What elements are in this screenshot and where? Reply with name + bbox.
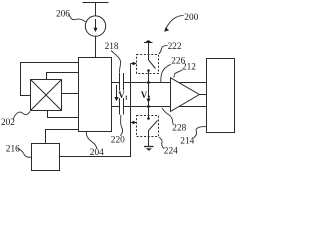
capacitor 220 — [120, 98, 124, 115]
wire capacitor 220 to comparator/block214 — [124, 106, 207, 108]
leader 224 — [159, 137, 164, 148]
svg-text:212: 212 — [182, 63, 196, 73]
wire current source to block 204 — [95, 36, 97, 57]
leader 226 — [161, 64, 171, 82]
leader 222 — [159, 46, 168, 54]
comparator output wire — [199, 94, 206, 96]
leader 216 — [18, 149, 32, 157]
wire box216 to block204 — [46, 130, 79, 144]
leader 218 — [111, 51, 121, 73]
svg-text:224: 224 — [164, 147, 178, 157]
switch control arrow upper — [131, 62, 137, 66]
block 204 — [79, 58, 112, 132]
wire into switch 224 — [148, 107, 150, 119]
box 216 — [32, 144, 60, 171]
wire capacitor 218 to comparator/block214 — [124, 82, 207, 84]
control wire box216 to switches — [60, 64, 131, 157]
block 214 — [207, 59, 235, 133]
wire block204 to capacitor 220 — [112, 106, 120, 108]
switch 224 — [147, 117, 157, 146]
leader 212 — [174, 70, 183, 78]
power rail T-bar — [83, 3, 109, 16]
current source I 206 — [85, 16, 105, 36]
svg-text:216: 216 — [6, 145, 20, 155]
supply bar over switch 222 — [144, 40, 153, 54]
wire block204 to mixer top — [47, 73, 79, 80]
wire block204 to mixer left — [21, 63, 79, 96]
leader 220 — [120, 115, 122, 136]
leader 202 — [13, 111, 30, 119]
svg-text:V1: V1 — [118, 90, 128, 102]
rail between wires with V2 arrow — [146, 83, 150, 107]
wire mixer bottom to block204 — [48, 111, 79, 118]
leader lines — [13, 14, 207, 157]
svg-text:202: 202 — [1, 118, 15, 128]
svg-text:200: 200 — [184, 13, 198, 23]
leader 204 — [86, 132, 97, 149]
comparator 212 triangle — [171, 78, 200, 112]
switch 222 — [147, 55, 155, 83]
leader 206 — [69, 14, 86, 22]
dashed box switch 224 — [137, 116, 159, 137]
leader 228 — [162, 108, 173, 124]
svg-text:204: 204 — [90, 148, 104, 158]
svg-text:218: 218 — [105, 42, 119, 52]
capacitor 218 — [120, 73, 124, 91]
arrow 200 — [164, 16, 183, 32]
leader 214 — [194, 127, 207, 138]
wire block204 to capacitor 218 — [112, 82, 120, 84]
svg-text:228: 228 — [172, 124, 186, 134]
dashed box switch 222 — [137, 55, 159, 74]
node dot V2 wire — [147, 105, 150, 108]
svg-text:220: 220 — [111, 136, 125, 146]
svg-text:214: 214 — [180, 137, 194, 147]
mixer X-box 202 — [31, 80, 62, 111]
node dot V1 wire — [147, 81, 150, 84]
svg-text:222: 222 — [168, 42, 182, 52]
svg-text:206: 206 — [56, 10, 70, 20]
wire mixer right to block204 — [62, 93, 79, 95]
V1 annotation arrow — [114, 85, 118, 101]
ground — [144, 147, 154, 151]
switch control arrow lower — [131, 121, 137, 125]
